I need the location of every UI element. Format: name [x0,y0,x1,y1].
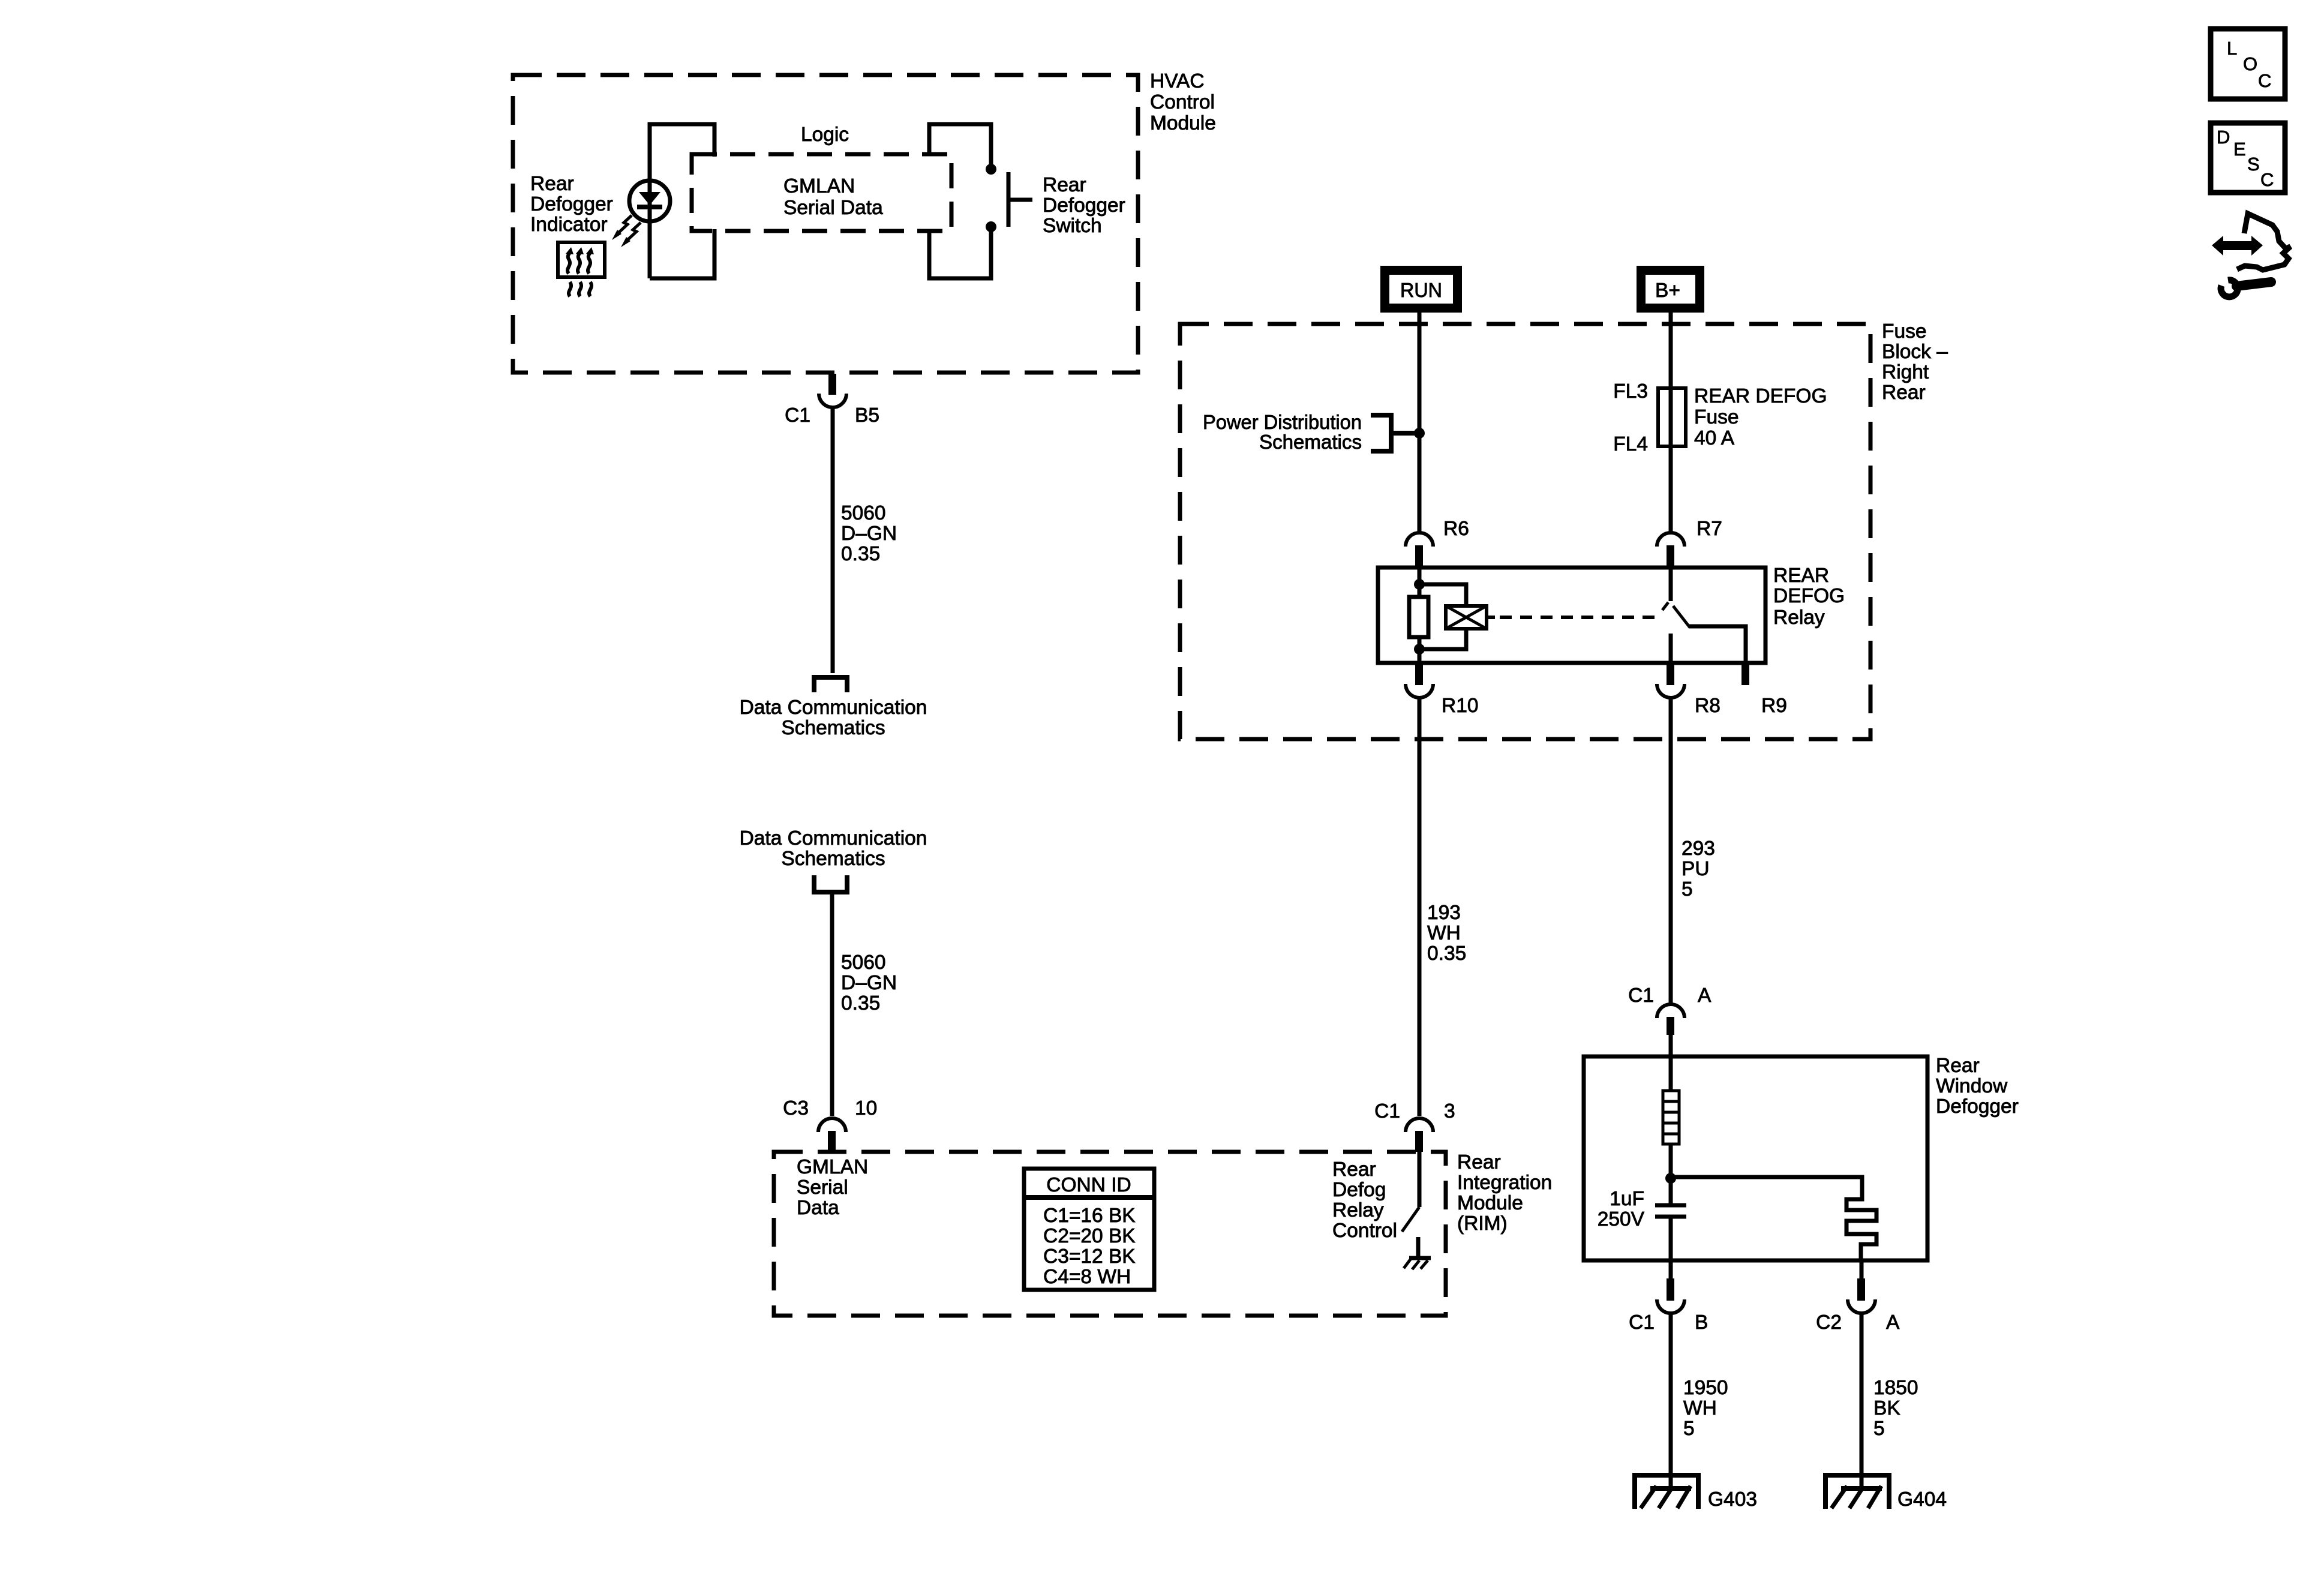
svg-text:G403: G403 [1708,1488,1757,1511]
junction (power distribution tap) [1414,428,1425,439]
relay coil resistor [1409,597,1428,637]
svg-text:C: C [2260,169,2274,190]
connector C1 pin B5 [819,374,846,407]
svg-text:RearDefoggerSwitch: RearDefoggerSwitch [1043,174,1125,237]
svg-text:RearDefogRelayControl: RearDefogRelayControl [1332,1158,1397,1242]
GMLAN Serial Data logic box [692,154,951,231]
B+ box [1637,266,1704,313]
svg-text:C: C [2258,70,2271,91]
switch contact dots [986,164,996,175]
svg-text:1uF: 1uF [1610,1188,1644,1210]
svg-text:5060D–GN0.35: 5060D–GN0.35 [841,951,897,1014]
service info icon: vehicle outline [2237,214,2290,270]
svg-text:GMLANSerialData: GMLANSerialData [797,1156,868,1219]
svg-text:R8: R8 [1695,695,1721,717]
svg-text:FL3: FL3 [1613,380,1648,403]
wire 1850 [1860,1313,1864,1488]
svg-text:HVACControlModule: HVACControlModule [1150,70,1216,134]
lightning arrows (indicator light) [612,215,641,247]
svg-text:RUN: RUN [1400,280,1442,302]
svg-text:E: E [2233,139,2246,160]
relay control switch (RIM internal) [1402,1152,1419,1232]
HVAC Control Module box [513,75,1138,373]
service info icon: wrench [2221,280,2271,297]
B+ feed wire [1669,313,1673,532]
relay coil (solenoid symbol) [1446,606,1495,629]
svg-text:3: 3 [1444,1100,1455,1122]
Fuse Block - Right Rear box [1180,324,1870,739]
svg-text:GMLANSerial Data: GMLANSerial Data [783,175,883,219]
connector C2 pin A [1848,1260,1875,1313]
svg-text:B: B [1695,1311,1708,1334]
ground G404 [1825,1475,1889,1509]
ground (RIM internal) [1404,1237,1431,1269]
RUN box [1380,266,1462,313]
connector R10 [1406,663,1433,698]
Rear Integration Module box [774,1152,1446,1316]
svg-text:Power Distribution: Power Distribution [1203,412,1362,434]
wire 193 (R10 to RIM) [1418,698,1422,1116]
svg-text:R6: R6 [1443,518,1469,540]
connector R7 [1657,533,1685,569]
svg-text:C1=16 BKC2=20 BKC3=12 BKC4=8 W: C1=16 BKC2=20 BKC3=12 BKC4=8 WH [1043,1205,1136,1288]
connector C1 pin A [1657,1004,1685,1056]
rear defogger indicator icon [558,242,605,296]
fuse REAR DEFOG FL3/FL4 [1658,388,1686,446]
svg-text:A: A [1698,984,1712,1007]
Power Distribution Schematics bracket [1371,415,1416,451]
svg-text:RearIntegrationModule(RIM): RearIntegrationModule(RIM) [1457,1151,1552,1235]
svg-text:A: A [1886,1311,1900,1334]
svg-text:C1: C1 [1374,1100,1400,1122]
svg-text:Schematics: Schematics [1259,431,1362,454]
Rear Window Defogger box [1584,1056,1927,1260]
wire 1950 [1669,1313,1673,1488]
wire 293 [1669,698,1673,1005]
junction node [1665,1173,1676,1184]
svg-text:Data CommunicationSchematics: Data CommunicationSchematics [740,697,927,739]
svg-text:O: O [2243,53,2257,74]
service info icon: double arrow [2212,236,2263,256]
capacitor 1uF 250V [1655,1178,1686,1260]
relay switch [1662,568,1746,663]
svg-text:B5: B5 [855,404,879,427]
svg-text:1950WH5: 1950WH5 [1683,1377,1728,1440]
wire 5060 lower [830,894,834,1116]
svg-text:R10: R10 [1442,695,1478,717]
svg-text:C1: C1 [1628,984,1654,1007]
svg-text:D: D [2217,127,2230,148]
wire 5060 upper [831,407,835,673]
LOC thumbnail box [2211,29,2285,99]
svg-text:C2: C2 [1816,1311,1842,1334]
push button actuator [1008,172,1032,227]
connector R8 [1657,663,1685,698]
svg-text:R7: R7 [1697,518,1722,540]
off-page connector (from Data Communication Schematics) [814,875,847,892]
svg-text:C1: C1 [1629,1311,1655,1334]
connector R6 [1406,533,1433,569]
svg-text:10: 10 [855,1097,877,1119]
DESC thumbnail box [2211,123,2285,193]
svg-text:L: L [2227,38,2237,59]
svg-text:193WH0.35: 193WH0.35 [1427,902,1466,965]
off-page connector (to Data Communication Schematics) [814,677,847,692]
svg-text:1850BK5: 1850BK5 [1873,1377,1918,1440]
REAR DEFOG Relay box [1378,568,1765,663]
svg-text:R9: R9 [1761,695,1787,717]
LED indicator wiring loop [650,124,714,278]
svg-text:FuseBlock –RightRear: FuseBlock –RightRear [1882,320,1948,404]
RUN feed wire [1418,313,1422,532]
svg-text:293PU5: 293PU5 [1682,837,1715,900]
CONN ID table [1024,1169,1154,1290]
defogger heater element [1663,1056,1679,1178]
svg-text:FL4: FL4 [1613,433,1648,455]
svg-text:G404: G404 [1897,1488,1947,1511]
svg-text:REAR DEFOGFuse40 A: REAR DEFOGFuse40 A [1694,385,1827,449]
relay coil circuit wiring [1414,569,1466,663]
svg-text:S: S [2247,154,2260,175]
svg-text:RearDefoggerIndicator: RearDefoggerIndicator [530,173,613,236]
svg-text:REARDEFOGRelay: REARDEFOGRelay [1773,565,1845,629]
svg-text:RearWindowDefogger: RearWindowDefogger [1936,1055,2019,1118]
LED indicator [629,181,670,221]
grid return meander [1671,1177,1876,1260]
Rear Defogger Switch wiring loop [929,124,991,278]
connector C1 pin B [1657,1260,1685,1313]
svg-text:C3: C3 [783,1097,809,1119]
ground G403 [1635,1475,1698,1509]
svg-text:Data CommunicationSchematics: Data CommunicationSchematics [740,827,927,870]
connector C1 pin 3 [1406,1118,1433,1152]
svg-text:250V: 250V [1598,1208,1645,1230]
svg-text:Logic: Logic [801,124,849,146]
mechanical link (dashed) [1500,616,1658,619]
svg-text:B+: B+ [1655,280,1680,302]
svg-text:C1: C1 [785,404,810,427]
pin R9 [1742,663,1749,685]
connector C3 pin 10 [818,1118,846,1152]
svg-text:CONN ID: CONN ID [1046,1174,1131,1196]
svg-text:5060D–GN0.35: 5060D–GN0.35 [841,502,897,565]
